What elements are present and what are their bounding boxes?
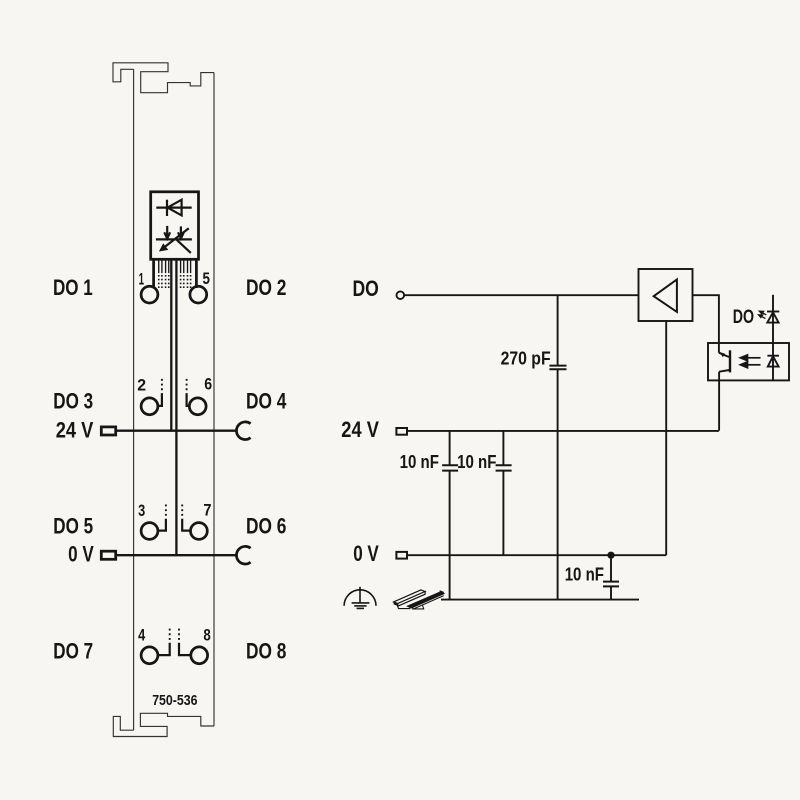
- terminal pin 4: [141, 647, 158, 664]
- optocoupler LED D3: [767, 343, 779, 380]
- internal bus wires right (solid): [181, 259, 191, 273]
- internal bus wires right (dotted): [181, 275, 191, 288]
- module outline bottom profile: [113, 713, 214, 736]
- diode D1 in LED box: [156, 200, 191, 216]
- svg-text:24 V: 24 V: [56, 417, 94, 442]
- svg-text:0 V: 0 V: [353, 541, 379, 566]
- wire DO to amplifier: [404, 294, 638, 296]
- svg-text:10 nF: 10 nF: [565, 563, 604, 584]
- svg-text:DO 2: DO 2: [246, 275, 286, 300]
- earth ground symbol: [344, 587, 376, 609]
- capacitor C1 10nF: [442, 431, 458, 600]
- svg-text:8: 8: [203, 626, 210, 644]
- svg-text:10 nF: 10 nF: [457, 451, 496, 472]
- pin 2 contact tick: [158, 393, 162, 406]
- pin 4 dotted continuation: [169, 629, 171, 641]
- 0V rail left: [116, 554, 237, 556]
- internal bus wires left (solid): [159, 259, 169, 273]
- terminal pin 1: [141, 286, 158, 303]
- svg-text:24 V: 24 V: [341, 417, 379, 442]
- ground rail: [441, 599, 639, 601]
- svg-text:DO 3: DO 3: [53, 389, 93, 414]
- optocoupler U3 box: [708, 343, 789, 380]
- pin 6 contact tick: [187, 393, 190, 406]
- svg-text:DO: DO: [733, 306, 754, 328]
- status LED D4: [767, 312, 779, 323]
- 24V clamp contact: [236, 422, 250, 440]
- svg-text:4: 4: [138, 626, 145, 644]
- 0V clamp contact: [236, 546, 250, 564]
- 0V terminal box left: [101, 551, 115, 559]
- diode D2 with light arrows in LED box: [156, 226, 192, 253]
- svg-text:6: 6: [204, 376, 212, 394]
- terminal pin 5: [190, 286, 207, 303]
- svg-text:DO 5: DO 5: [53, 514, 93, 539]
- svg-text:DO 1: DO 1: [53, 275, 93, 300]
- svg-text:10 nF: 10 nF: [400, 451, 439, 472]
- svg-text:DO 8: DO 8: [246, 639, 286, 664]
- capacitor C2 10nF: [496, 431, 512, 556]
- 0V terminal box right: [396, 552, 407, 559]
- junction dot on 0V rail: [607, 552, 614, 559]
- status LED D4 stem: [772, 295, 774, 343]
- 0V rail right: [407, 554, 666, 556]
- svg-text:DO 6: DO 6: [246, 514, 286, 539]
- optocoupler light arrows: [740, 355, 760, 368]
- module right edge: [213, 73, 215, 726]
- svg-text:2: 2: [137, 376, 146, 394]
- op-amp triangle: [654, 279, 677, 312]
- svg-text:3: 3: [138, 502, 145, 520]
- svg-text:DO 4: DO 4: [246, 389, 287, 414]
- svg-text:DO: DO: [353, 276, 379, 301]
- terminal pin 6: [189, 398, 206, 415]
- pin 8 contact tick: [179, 643, 191, 655]
- svg-text:750-536: 750-536: [152, 692, 197, 709]
- center wire to 24V rail: [170, 259, 172, 430]
- wire box to pin 1: [152, 259, 155, 288]
- op-amp U2 box: [639, 269, 693, 321]
- svg-text:DO 7: DO 7: [53, 639, 93, 664]
- pin 7 contact tick: [182, 519, 190, 531]
- module outline top profile: [113, 63, 214, 93]
- svg-text:5: 5: [203, 270, 210, 288]
- node DO: [397, 291, 405, 299]
- module left edge: [133, 69, 135, 730]
- capacitor C4 10nF: [603, 555, 619, 599]
- pin 3 dotted continuation: [165, 505, 167, 517]
- wire amp output to optocoupler: [693, 295, 719, 353]
- wire emitter to 24V rail: [718, 380, 720, 430]
- 24V terminal box left: [101, 427, 115, 435]
- terminal pin 3: [141, 523, 158, 540]
- terminal pin 8: [191, 647, 208, 664]
- LED box U1: [151, 192, 199, 259]
- capacitor 270pF: [549, 295, 566, 599]
- pin 7 dotted continuation: [181, 505, 183, 517]
- DIN rail symbol: [394, 590, 444, 610]
- internal bus wires left (dotted): [159, 275, 169, 288]
- svg-text:270 pF: 270 pF: [501, 348, 551, 369]
- pin 3 contact tick: [158, 519, 166, 531]
- svg-text:7: 7: [203, 501, 211, 519]
- wire amp bottom to 0V: [665, 321, 667, 555]
- terminal pin 7: [191, 523, 208, 540]
- 24V terminal box right: [396, 428, 407, 435]
- 24V rail left: [116, 430, 237, 432]
- svg-text:0 V: 0 V: [68, 541, 94, 566]
- pin 8 dotted continuation: [178, 629, 180, 641]
- pin 2 dotted continuation: [161, 379, 163, 391]
- center wire to 0V rail: [175, 259, 177, 555]
- pin 6 dotted continuation: [186, 379, 188, 391]
- status LED light arrows: [759, 311, 767, 318]
- 24V rail right: [407, 430, 719, 432]
- wire box to pin 5: [195, 259, 198, 288]
- terminal pin 2: [141, 398, 158, 415]
- svg-text:1: 1: [139, 271, 144, 289]
- pin 4 contact tick: [158, 643, 170, 655]
- phototransistor Q1: [719, 350, 730, 380]
